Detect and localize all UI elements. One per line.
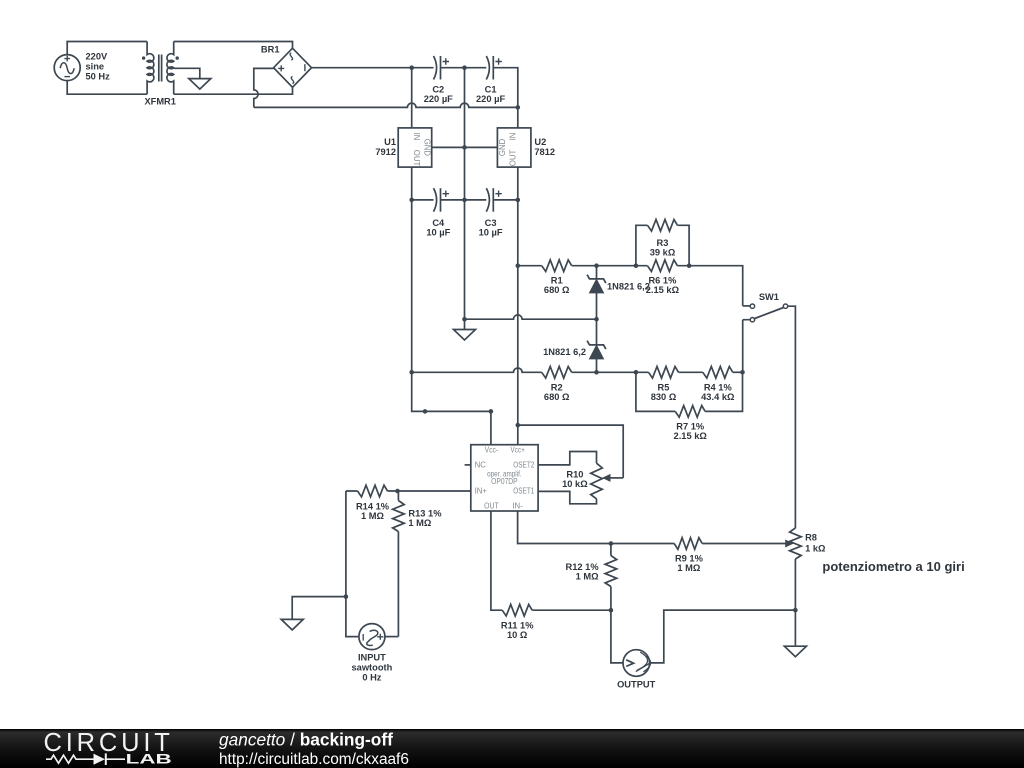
wire: R13 column bottom lead <box>397 532 399 637</box>
wire: op-amp IN- down and right <box>518 511 611 544</box>
svg-text:R12 1%: R12 1% <box>566 562 600 572</box>
ground: transformer center tap <box>189 79 211 90</box>
regulator U1 7912 box <box>398 128 432 167</box>
svg-text:gancetto / backing-off: gancetto / backing-off <box>219 730 393 750</box>
svg-text:220V: 220V <box>86 52 109 62</box>
wire: U1 IN column <box>411 68 413 128</box>
wire: R6 to switch left terminal <box>689 266 743 306</box>
svg-text:R14 1%: R14 1% <box>356 502 390 512</box>
svg-text:OP07DP: OP07DP <box>491 477 518 486</box>
svg-text:10 Ω: 10 Ω <box>507 630 528 640</box>
resistor R11 <box>502 604 532 616</box>
junction: +12V column / R1 row <box>516 263 521 268</box>
transformer XFMR1 primary coil <box>147 42 154 95</box>
wire: NC stub <box>465 464 471 466</box>
svg-text:7812: 7812 <box>534 147 555 157</box>
svg-text:1N821 6,2: 1N821 6,2 <box>607 281 650 291</box>
footer bar <box>0 729 1024 768</box>
svg-text:10 kΩ: 10 kΩ <box>562 479 588 489</box>
svg-text:R6 1%: R6 1% <box>648 276 677 286</box>
capacitor C4 <box>434 188 437 212</box>
wire: R4 to right junction <box>733 371 743 373</box>
wire: ground branch <box>292 597 346 620</box>
svg-text:1N821 6,2: 1N821 6,2 <box>543 347 586 357</box>
junction: R12 bottom / output branch <box>609 608 614 613</box>
wire: R5 to R4 <box>679 371 703 373</box>
svg-text:potenziometro a 10 giri: potenziometro a 10 giri <box>822 559 964 574</box>
wire: U1 OUT column down to R2 row <box>411 167 413 372</box>
wire: R7 loop <box>636 372 743 411</box>
svg-text:10 µF: 10 µF <box>426 228 450 238</box>
svg-text:680 Ω: 680 Ω <box>544 392 570 402</box>
svg-text:GND: GND <box>498 138 507 156</box>
bridge rectifier BR1 <box>274 48 312 87</box>
svg-text:IN+: IN+ <box>475 487 488 496</box>
svg-text:BR1: BR1 <box>261 44 280 54</box>
polarity dot secondary <box>176 56 179 59</box>
resistor R5 <box>649 367 679 379</box>
zener diode D2 1N821 <box>587 341 606 349</box>
svg-text:1 MΩ: 1 MΩ <box>408 518 431 528</box>
wire: source top to transformer primary <box>67 42 147 55</box>
svg-text:IN-: IN- <box>512 502 523 511</box>
svg-text:680 Ω: 680 Ω <box>544 285 570 295</box>
svg-text:OUT: OUT <box>412 150 421 167</box>
junction: cap rail center <box>462 198 467 203</box>
svg-text:sawtooth: sawtooth <box>351 663 392 673</box>
capacitor C2 <box>434 56 437 80</box>
svg-text:OUT: OUT <box>484 502 499 511</box>
zener diode D1 1N821 <box>587 275 606 283</box>
BR1 plus mark <box>278 65 284 71</box>
switch SW1 lever <box>754 308 783 319</box>
junction: R5 left / R7 branch <box>634 370 639 375</box>
zener diode D1 leads <box>596 266 598 320</box>
wire: secondary bottom to bridge bottom <box>174 87 293 94</box>
resistor R13 <box>393 501 405 532</box>
svg-text:10 µF: 10 µF <box>479 228 503 238</box>
voltage source V1 220V sine <box>54 55 80 81</box>
resistor R9 <box>674 538 702 550</box>
regulator U2 7812 box <box>497 128 531 167</box>
wire: stub to ground symbol <box>464 319 466 329</box>
wire: switch right terminal to right rail down to R8 <box>788 306 796 528</box>
BR1 ac mark bottom <box>291 77 294 84</box>
wire: cap rail segment 2 <box>441 199 487 201</box>
junction: ground branch on left column <box>344 594 349 599</box>
wire: switch lower left stub and column down <box>743 320 751 373</box>
resistor R3 <box>648 220 678 232</box>
transformer core <box>159 55 162 82</box>
svg-text:OSET2: OSET2 <box>513 460 534 469</box>
wire: output meter right branch <box>649 610 795 663</box>
junction: output net / R8 bottom <box>793 608 798 613</box>
wire: R1 row segments <box>518 265 636 267</box>
svg-text:OSET1: OSET1 <box>513 487 534 496</box>
wire: R2 row with hop over +12 column <box>412 368 597 372</box>
wire: minus rail BR1 to C2 <box>312 67 434 69</box>
svg-text:Vcc+: Vcc+ <box>510 445 525 454</box>
svg-text:1 kΩ: 1 kΩ <box>805 544 826 554</box>
svg-text:INPUT: INPUT <box>358 653 386 663</box>
svg-text:http://circuitlab.com/ckxaaf6: http://circuitlab.com/ckxaaf6 <box>219 751 409 768</box>
junction: cap rail right <box>516 198 521 203</box>
junction: zener midpoint <box>594 317 599 322</box>
svg-text:GND: GND <box>423 139 432 157</box>
resistor R4 <box>703 367 733 379</box>
svg-text:7912: 7912 <box>375 147 396 157</box>
transformer XFMR1 secondary coil <box>167 42 174 95</box>
junction: cap rail left <box>409 198 414 203</box>
op-amp U3 OP07DP box <box>471 445 538 511</box>
source V2 INPUT sawtooth <box>359 624 385 650</box>
svg-text:Vcc-: Vcc- <box>485 445 499 454</box>
potentiometer R10 <box>591 463 603 499</box>
junction: -12V column / R2 row <box>409 370 414 375</box>
svg-text:LAB: LAB <box>126 751 172 767</box>
svg-text:R10: R10 <box>566 470 583 480</box>
junction: minus rail / U1 IN branch <box>409 65 414 70</box>
CircuitLab logo resistor-diode glyph <box>46 755 125 763</box>
svg-text:2.15 kΩ: 2.15 kΩ <box>646 285 680 295</box>
svg-text:OUT: OUT <box>509 150 518 167</box>
ground: right bottom <box>784 646 806 657</box>
svg-text:0 Hz: 0 Hz <box>362 673 381 683</box>
svg-text:U2: U2 <box>534 137 546 147</box>
svg-text:1 MΩ: 1 MΩ <box>576 572 599 582</box>
wire: R14 junction to op-amp IN+ <box>398 490 471 492</box>
capacitor C3 <box>486 188 489 212</box>
wire: R14 row segments <box>346 490 398 492</box>
svg-text:XFMR1: XFMR1 <box>144 96 176 106</box>
R8 wiper arrow <box>785 540 794 548</box>
potentiometer R8 <box>790 528 802 559</box>
svg-text:R9 1%: R9 1% <box>675 554 704 564</box>
wire: R13 column top lead <box>397 491 399 501</box>
svg-text:R2: R2 <box>551 382 563 392</box>
svg-text:2.15 kΩ: 2.15 kΩ <box>674 431 708 441</box>
junction: gnd column top <box>462 65 467 70</box>
svg-text:R5: R5 <box>658 382 670 392</box>
wire: cap rail segment 3 <box>493 199 518 201</box>
svg-text:R7 1%: R7 1% <box>676 422 705 432</box>
svg-text:50 Hz: 50 Hz <box>86 72 111 82</box>
junction: Vcc- corner <box>489 409 494 414</box>
wire: input source right lead <box>385 636 399 638</box>
wire: gnd row to zener midpoint with hop over +12 column <box>465 315 597 319</box>
svg-text:OUTPUT: OUTPUT <box>617 679 656 689</box>
wire: switch upper left stub <box>743 305 751 307</box>
wire: R6 row segments <box>636 265 689 267</box>
svg-text:43.4 kΩ: 43.4 kΩ <box>701 392 735 402</box>
wire: zener D2 to R5 <box>597 371 649 373</box>
junction: zener D2 bottom <box>594 370 599 375</box>
junction: +rail / U2 IN column <box>516 105 521 110</box>
wire: U2 GND to gnd column <box>465 146 498 148</box>
svg-text:IN: IN <box>412 133 421 141</box>
svg-text:sine: sine <box>86 62 105 72</box>
BR1 minus mark <box>304 64 306 71</box>
junction dot on Vcc- wire <box>423 409 428 414</box>
svg-text:U1: U1 <box>384 137 396 147</box>
svg-text:R11 1%: R11 1% <box>501 621 534 631</box>
resistor R7 <box>675 406 705 418</box>
resistor R6 <box>647 260 677 272</box>
wire: R11 to R12 bottom junction <box>532 609 611 611</box>
junction: R14/R13 <box>395 489 400 494</box>
wire: output meter left branch <box>611 610 624 663</box>
wire: source bottom to transformer primary <box>67 81 147 95</box>
svg-text:R13 1%: R13 1% <box>408 509 442 519</box>
ground: input side <box>281 619 303 630</box>
resistor R2 <box>542 367 572 379</box>
R10 wiper arrow <box>609 477 623 479</box>
svg-text:R1: R1 <box>551 276 563 286</box>
junction: R4/R7/switch column <box>740 370 745 375</box>
wire: BR1 plus output left and down, hopping over bottom rail <box>254 68 274 107</box>
wire: Vcc- net from -12V column <box>412 372 491 444</box>
wire: center tap to ground <box>174 68 200 78</box>
wire: OSET1 to R10 bottom <box>538 491 596 503</box>
resistor R1 <box>542 260 572 272</box>
wire: left column down to input source <box>346 491 359 637</box>
resistor R14 <box>358 485 388 497</box>
svg-text:39 kΩ: 39 kΩ <box>650 247 676 257</box>
svg-text:R4 1%: R4 1% <box>704 382 733 392</box>
svg-text:220 µF: 220 µF <box>476 94 505 104</box>
capacitor C1 <box>486 56 489 80</box>
wire: op-amp OUT down to R11 row <box>491 511 502 610</box>
resistor R12 <box>605 556 617 587</box>
junction: zener D1 top <box>594 263 599 268</box>
junction: R3/R6 left <box>634 263 639 268</box>
junction: R12 top <box>609 541 614 546</box>
svg-text:220 µF: 220 µF <box>424 94 453 104</box>
wire: OSET2 to R10 top <box>538 452 596 465</box>
wire: U1 GND to gnd column <box>432 146 465 148</box>
svg-text:NC: NC <box>475 460 487 469</box>
svg-text:IN: IN <box>509 133 518 141</box>
svg-text:R3: R3 <box>657 238 669 248</box>
wire: gnd column minus rail down to zener midpoint row <box>464 68 466 320</box>
wire: R8 bottom to ground <box>794 559 796 645</box>
wire: +rail to U2 IN column with two hops <box>254 103 518 107</box>
output meter OUTPUT <box>623 650 650 677</box>
wire: C2 right plate to C1 left plate <box>441 67 487 69</box>
svg-text:1 MΩ: 1 MΩ <box>361 511 384 521</box>
svg-text:1 MΩ: 1 MΩ <box>677 563 700 573</box>
polarity dot primary <box>142 56 145 59</box>
wire: R12 leads <box>610 544 612 611</box>
junction: Vcc+ node <box>516 423 521 428</box>
switch SW1 terminals <box>750 304 754 308</box>
wire: U2 OUT column down to Vcc+ node <box>517 167 519 445</box>
svg-text:SW1: SW1 <box>759 292 779 302</box>
svg-text:R8: R8 <box>805 533 817 543</box>
wire: R3 parallel loop <box>636 225 689 265</box>
wire: cap rail segment 1 <box>412 199 434 201</box>
ground: zener midpoint <box>454 330 476 341</box>
junction: R3/R6 right <box>687 263 692 268</box>
wire: Vcc+ node to R10 wiper column <box>518 425 623 478</box>
junction: gnd column / gnd row <box>462 317 467 322</box>
BR1 ac mark top <box>290 53 293 60</box>
svg-text:830 Ω: 830 Ω <box>651 392 677 402</box>
zener diode D2 leads <box>596 319 598 372</box>
wire: R9 row <box>611 543 787 545</box>
junction: gnd column / regulator GND <box>462 145 467 150</box>
wire: C1 right plate to corner down to U2 IN <box>493 68 518 128</box>
wire: secondary top to bridge top <box>174 42 293 49</box>
